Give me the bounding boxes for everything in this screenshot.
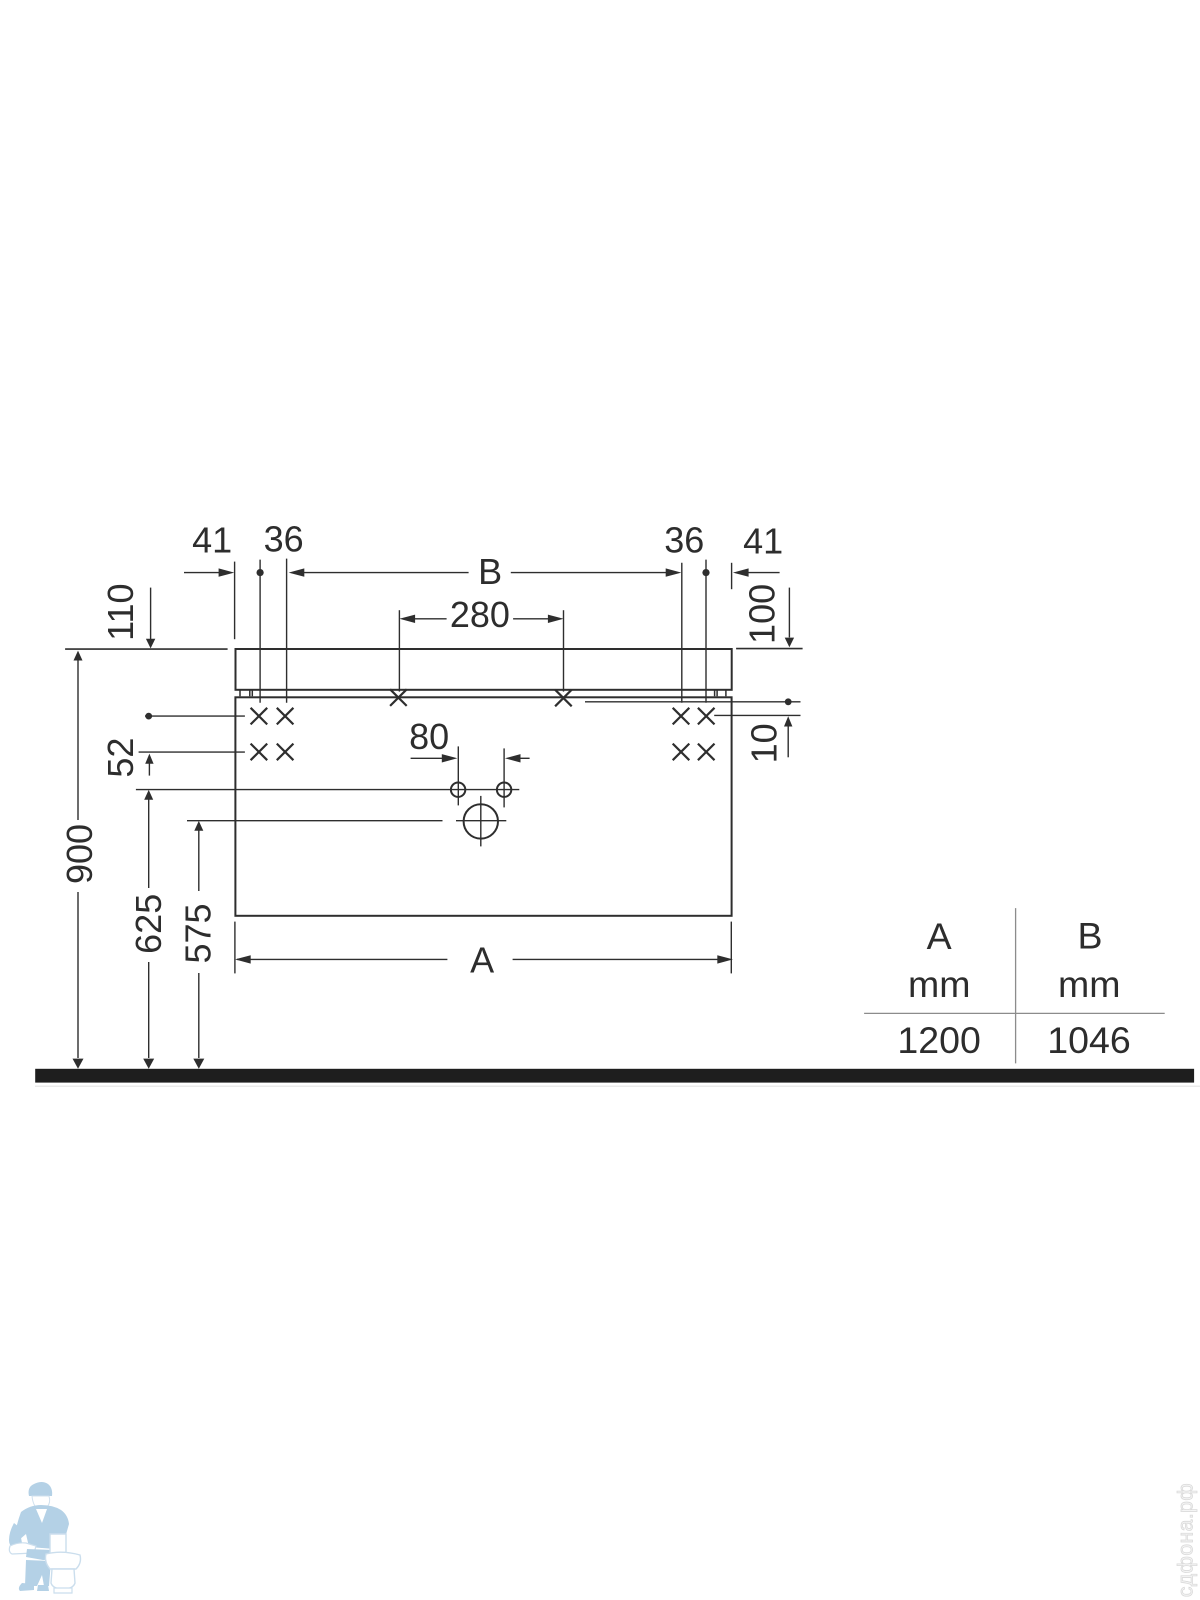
svg-text:41: 41 [192, 520, 232, 561]
svg-text:110: 110 [100, 583, 141, 640]
svg-text:41: 41 [743, 520, 783, 561]
svg-text:B: B [1077, 915, 1102, 957]
svg-text:52: 52 [100, 738, 141, 778]
svg-text:1200: 1200 [897, 1019, 980, 1061]
svg-text:280: 280 [450, 594, 510, 635]
svg-text:A: A [927, 915, 952, 957]
svg-text:100: 100 [742, 584, 783, 644]
svg-text:625: 625 [128, 894, 169, 954]
svg-text:36: 36 [664, 519, 704, 560]
svg-text:сдфона.рф: сдфона.рф [1175, 1483, 1198, 1597]
svg-text:80: 80 [409, 716, 449, 757]
svg-text:mm: mm [1058, 963, 1120, 1005]
svg-text:B: B [478, 551, 502, 592]
svg-text:1046: 1046 [1047, 1019, 1130, 1061]
svg-text:900: 900 [59, 824, 100, 884]
svg-text:575: 575 [178, 903, 219, 963]
svg-text:A: A [470, 939, 494, 980]
svg-text:36: 36 [264, 519, 304, 560]
svg-text:mm: mm [908, 963, 970, 1005]
svg-text:10: 10 [743, 723, 784, 763]
